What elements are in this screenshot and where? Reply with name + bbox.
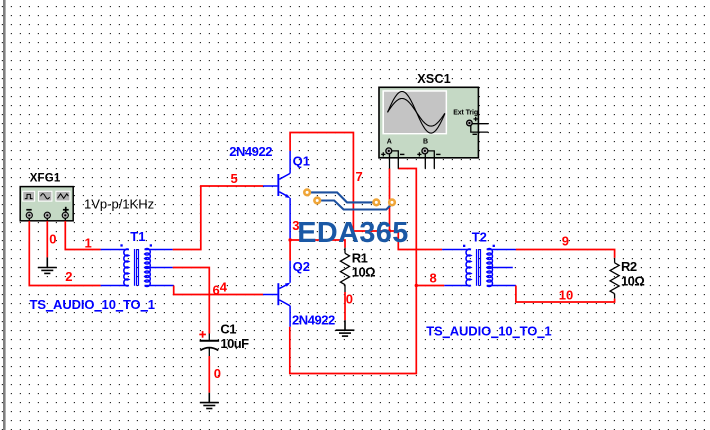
- svg-text:4: 4: [220, 280, 228, 295]
- transformer T2: [442, 248, 516, 286]
- svg-text:TS_AUDIO_10_TO_1: TS_AUDIO_10_TO_1: [30, 297, 155, 312]
- svg-text:8: 8: [430, 270, 437, 285]
- left window edge bar: [3, 0, 6, 430]
- svg-text:9: 9: [562, 233, 569, 248]
- resistor R2: [610, 258, 619, 299]
- svg-text:XFG1: XFG1: [30, 173, 61, 185]
- C1 plus mark: [199, 334, 206, 336]
- wire C1 to ground: [208, 356, 210, 393]
- scope terminal A pin stubs: [390, 151, 399, 169]
- junction dot net 8: [415, 284, 418, 287]
- wire net 9 T2 sec top to R2: [516, 250, 615, 258]
- T2 polarity dots: [463, 245, 465, 247]
- svg-text:1: 1: [85, 235, 92, 250]
- scope terminal B pin stubs: [425, 151, 434, 169]
- EDA365 watermark trace icon: [303, 188, 396, 209]
- svg-text:2N4922: 2N4922: [229, 144, 272, 159]
- svg-text:XSC1: XSC1: [417, 72, 451, 86]
- XFG1 terminal pin x=65.3: [62, 212, 68, 218]
- wire net 0 from XFG1 middle to ground: [46, 221, 48, 258]
- oscilloscope XSC1 body: [379, 87, 488, 168]
- XFG1 terminal pin x=47.3: [44, 212, 50, 218]
- svg-text:0: 0: [346, 292, 353, 307]
- wire net 10 R2 bottom to T2 sec bottom: [516, 286, 615, 303]
- svg-text:0: 0: [49, 231, 56, 246]
- function generator XFG1 body: [20, 187, 73, 222]
- wire R1 to ground: [344, 292, 346, 320]
- svg-text:T1: T1: [130, 229, 145, 244]
- svg-text:T2: T2: [472, 229, 487, 244]
- svg-text:B: B: [423, 138, 428, 145]
- svg-text:1Vp-p/1KHz: 1Vp-p/1KHz: [84, 196, 154, 211]
- svg-text:0: 0: [214, 366, 221, 381]
- transistor Q2: [263, 261, 290, 327]
- wire net 7 Q1 collector to scope A and T2 primary top: [290, 133, 442, 250]
- ground below C1: [200, 393, 219, 409]
- scope terminal B: [422, 148, 428, 154]
- Ext Trig pin stubs: [471, 124, 489, 132]
- svg-text:R1: R1: [352, 251, 368, 266]
- svg-text:2: 2: [65, 269, 72, 284]
- XFG1 terminal pin x=29.3: [26, 212, 32, 218]
- junction dot net 7: [388, 229, 391, 232]
- Ext Trig terminal: [467, 120, 473, 126]
- scope terminal A: [386, 148, 392, 154]
- svg-text:10uF: 10uF: [220, 336, 249, 351]
- wire net 5 T1 sec top to Q1 base: [173, 186, 263, 250]
- svg-text:10: 10: [559, 287, 573, 302]
- XFG1 plus mark: [63, 209, 69, 211]
- svg-text:Q1: Q1: [293, 154, 310, 169]
- wire net 6 T1 sec bottom to Q2 base: [174, 286, 263, 295]
- transistor Q1: [263, 151, 290, 239]
- ground below R1: [336, 320, 355, 336]
- wire net 3 emitters junction to R1: [290, 240, 345, 261]
- svg-text:6: 6: [213, 283, 220, 298]
- resistor R1: [340, 248, 349, 292]
- svg-text:10Ω: 10Ω: [621, 274, 644, 289]
- ground below XFG1: [38, 257, 57, 273]
- svg-text:10Ω: 10Ω: [352, 265, 375, 280]
- svg-text:5: 5: [231, 171, 238, 186]
- svg-text:A: A: [387, 138, 392, 145]
- svg-text:TS_AUDIO_10_TO_1: TS_AUDIO_10_TO_1: [426, 324, 551, 339]
- wire net 2 from XFG1 minus to T1 primary bottom: [29, 221, 100, 286]
- svg-text:R2: R2: [621, 259, 637, 274]
- svg-text:C1: C1: [220, 322, 236, 337]
- svg-text:7: 7: [356, 169, 363, 184]
- junction dot net 3: [288, 238, 291, 241]
- wire net 4 T1 center tap down to C1: [173, 268, 210, 334]
- svg-text:EDA365: EDA365: [297, 217, 409, 249]
- svg-text:Q2: Q2: [293, 259, 310, 274]
- transformer T1: [101, 248, 174, 286]
- T1 polarity dots: [120, 244, 122, 246]
- XFG1 minus mark: [26, 209, 31, 211]
- wire net 8 scope A- / Q2 collector / T2 primary bottom: [290, 169, 445, 374]
- wire net 1 from XFG1 plus to T1 primary top: [65, 221, 100, 250]
- capacitor C1: [200, 334, 220, 357]
- svg-text:2N4922: 2N4922: [292, 313, 335, 328]
- svg-text:Ext Trig: Ext Trig: [453, 109, 478, 116]
